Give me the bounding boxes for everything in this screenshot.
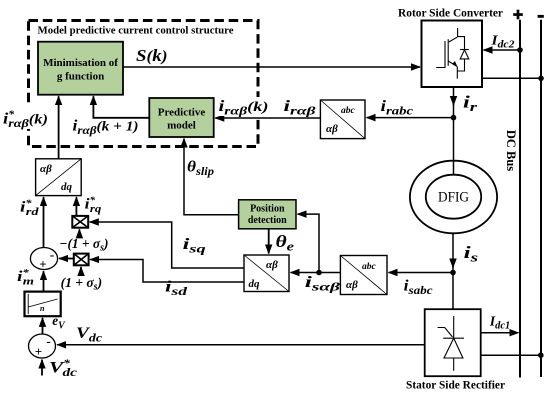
svg-text:Position: Position <box>250 204 285 215</box>
svg-text:S(k): S(k) <box>136 46 168 65</box>
svg-text:irαβ: irαβ <box>284 98 317 118</box>
svg-text:i*m: i*m <box>17 268 35 288</box>
svg-text:θslip: θslip <box>187 159 214 179</box>
svg-text:DC Bus: DC Bus <box>504 130 518 171</box>
svg-text:Idc1: Idc1 <box>489 314 510 331</box>
svg-text:Stator Side Rectifier: Stator Side Rectifier <box>406 378 506 392</box>
svg-text:abc: abc <box>362 262 377 272</box>
svg-text:-: - <box>50 247 54 262</box>
svg-text:g function: g function <box>57 71 104 83</box>
svg-text:i*rd: i*rd <box>20 198 39 218</box>
svg-text:dq: dq <box>249 278 261 290</box>
svg-text:+: + <box>39 257 46 272</box>
svg-text:irabc: irabc <box>381 98 414 118</box>
svg-text:model: model <box>167 120 196 132</box>
svg-text:αβ: αβ <box>266 259 278 271</box>
svg-text:−(1 + σs): −(1 + σs) <box>59 236 108 254</box>
svg-text:Vdc: Vdc <box>76 325 102 345</box>
svg-text:αβ: αβ <box>326 123 338 135</box>
svg-text:is: is <box>464 243 479 265</box>
svg-text:θe: θe <box>276 232 295 254</box>
svg-text:isq: isq <box>183 236 206 256</box>
svg-text:i*rq: i*rq <box>85 195 102 215</box>
svg-text:αβ: αβ <box>346 279 358 291</box>
svg-text:dq: dq <box>61 181 73 193</box>
svg-text:isabc: isabc <box>404 278 434 298</box>
svg-text:-: - <box>46 334 50 349</box>
svg-text:αβ: αβ <box>40 163 52 175</box>
svg-text:Minimisation of: Minimisation of <box>43 57 118 69</box>
svg-text:ir: ir <box>463 93 478 115</box>
svg-text:+: + <box>35 344 42 359</box>
svg-text:abc: abc <box>341 106 356 116</box>
svg-text:Model predictive current contr: Model predictive current control structu… <box>38 25 234 37</box>
svg-text:detection: detection <box>248 215 287 226</box>
svg-text:Predictive: Predictive <box>158 107 206 119</box>
svg-text:DFIG: DFIG <box>438 190 469 206</box>
svg-text:V*dc: V*dc <box>49 359 77 380</box>
svg-text:irαβ(k + 1): irαβ(k + 1) <box>73 118 139 138</box>
svg-text:(1 + σs): (1 + σs) <box>61 275 103 293</box>
svg-text:isαβ: isαβ <box>305 274 341 294</box>
svg-text:Idc2: Idc2 <box>490 33 515 50</box>
svg-text:Rotor Side Converter: Rotor Side Converter <box>398 6 504 20</box>
svg-text:n: n <box>40 304 45 313</box>
